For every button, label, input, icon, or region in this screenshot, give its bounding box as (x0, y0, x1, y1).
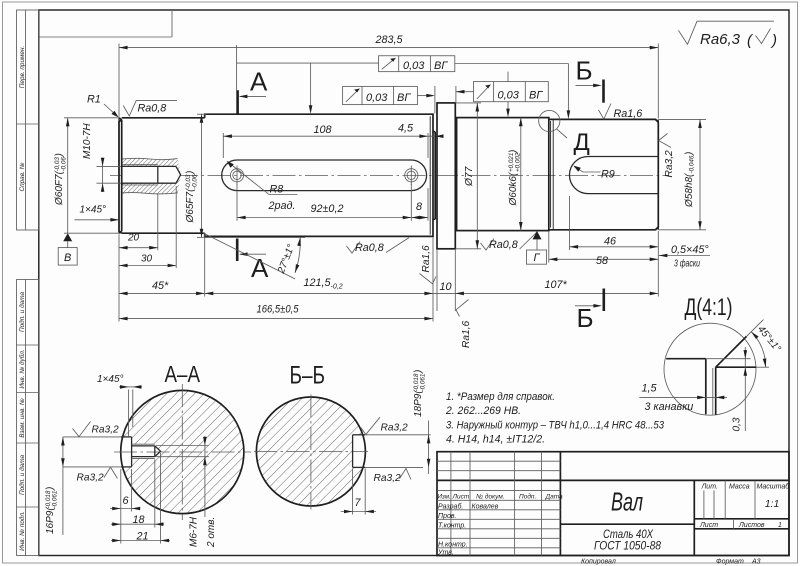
svg-text:Справ. №: Справ. № (19, 162, 26, 191)
svg-text:Сталь 40Х: Сталь 40Х (603, 529, 654, 541)
svg-text:А–А: А–А (165, 361, 201, 387)
svg-text:Ø60k6(: Ø60k6( (508, 171, 519, 206)
svg-text:2рад.: 2рад. (268, 200, 296, 212)
svg-text:107*: 107* (545, 279, 568, 291)
svg-text:Утв.: Утв. (437, 549, 454, 556)
svg-text:283,5: 283,5 (375, 34, 404, 46)
svg-text:): ) (684, 152, 695, 156)
svg-text:Ø60F7(: Ø60F7( (54, 169, 65, 206)
svg-text:ГОСТ 1050-88: ГОСТ 1050-88 (594, 540, 662, 552)
svg-text:20: 20 (127, 233, 140, 244)
svg-text:1: 1 (778, 522, 782, 529)
svg-text:+0,002: +0,002 (514, 152, 521, 172)
svg-text:Подп. и дата: Подп. и дата (18, 455, 26, 495)
svg-text:Перв. примен.: Перв. примен. (19, 46, 26, 88)
svg-text:30: 30 (141, 254, 153, 265)
svg-text:): ) (508, 150, 519, 154)
svg-text:Ra3,2: Ra3,2 (374, 473, 402, 484)
svg-text:В: В (64, 252, 71, 264)
svg-text:R9: R9 (601, 169, 615, 181)
svg-text:10: 10 (440, 281, 452, 293)
svg-text:0,3: 0,3 (732, 417, 743, 431)
svg-text:№ докум.: № докум. (476, 493, 505, 501)
svg-text:Взам. инв. №: Взам. инв. № (19, 398, 26, 438)
svg-text:-0,046: -0,046 (689, 155, 696, 173)
svg-text:): ) (413, 370, 424, 374)
svg-text:R8: R8 (270, 184, 284, 196)
svg-text:166,5±0,5: 166,5±0,5 (257, 304, 300, 316)
svg-text:Подп. и дата: Подп. и дата (18, 292, 26, 332)
svg-text:Д: Д (574, 129, 590, 156)
svg-text:Ra3,2: Ra3,2 (664, 150, 675, 178)
svg-text:Подп.: Подп. (519, 493, 536, 501)
svg-text:1,5: 1,5 (642, 383, 658, 395)
svg-text:1×45°: 1×45° (97, 374, 124, 385)
svg-text:Масса: Масса (729, 483, 750, 490)
svg-text:46: 46 (604, 235, 616, 247)
svg-text:-0,06: -0,06 (191, 174, 198, 189)
svg-text:Изм.: Изм. (438, 494, 451, 501)
svg-text:Ra1,6: Ra1,6 (461, 320, 472, 348)
svg-text:18Р9(: 18Р9( (413, 389, 424, 417)
svg-text:Ra1,6: Ra1,6 (614, 108, 643, 120)
svg-text:3 канавки: 3 канавки (645, 401, 694, 413)
svg-text:М6-7Н: М6-7Н (189, 516, 200, 547)
svg-text:0,03: 0,03 (403, 60, 425, 72)
svg-text:4. Н14, h14, ±IT12/2.: 4. Н14, h14, ±IT12/2. (446, 434, 545, 446)
svg-text:2. 262...269 НВ.: 2. 262...269 НВ. (445, 405, 521, 417)
svg-text:А: А (251, 253, 269, 283)
svg-text:Ø58h8(: Ø58h8( (684, 172, 695, 208)
svg-text:0,03: 0,03 (498, 89, 520, 101)
svg-text:Б: Б (577, 303, 594, 333)
svg-text:21: 21 (136, 530, 149, 542)
svg-text:2 отв.: 2 отв. (206, 517, 217, 548)
svg-text:Ra6,3: Ra6,3 (700, 31, 741, 48)
svg-text:ВГ: ВГ (529, 89, 543, 101)
svg-text:4,5: 4,5 (398, 123, 414, 135)
svg-text:Лист: Лист (699, 522, 718, 529)
svg-text:7: 7 (355, 497, 362, 509)
svg-text:1×45°: 1×45° (80, 205, 107, 216)
svg-text:Лист: Лист (452, 494, 470, 501)
svg-text:): ) (45, 487, 56, 491)
svg-text:Г: Г (534, 252, 541, 264)
svg-text:): ) (770, 32, 777, 49)
svg-text:А: А (250, 67, 268, 97)
svg-text:Ковалев: Ковалев (472, 503, 499, 510)
svg-text:R1: R1 (87, 94, 101, 106)
svg-text:Д(4:1): Д(4:1) (685, 294, 733, 321)
svg-text:58: 58 (596, 255, 608, 267)
svg-text:Лит.: Лит. (701, 483, 718, 490)
svg-text:1:1: 1:1 (765, 498, 780, 510)
svg-text:ВГ: ВГ (434, 60, 448, 72)
svg-text:Масштаб: Масштаб (757, 482, 791, 490)
svg-text:108: 108 (314, 124, 332, 136)
svg-text:Ra0,8: Ra0,8 (489, 239, 518, 251)
svg-text:0,5×45°: 0,5×45° (671, 244, 709, 256)
svg-text:Разраб.: Разраб. (438, 502, 463, 510)
svg-text:3 фаски: 3 фаски (674, 259, 700, 270)
svg-text:6: 6 (123, 495, 129, 507)
svg-text:Ø77: Ø77 (464, 166, 475, 187)
svg-text:Инв. № подл.: Инв. № подл. (18, 511, 26, 551)
svg-text:ВГ: ВГ (397, 92, 411, 104)
svg-text:-0,061: -0,061 (419, 374, 426, 392)
svg-text:Ra0,8: Ra0,8 (355, 242, 384, 254)
svg-text:-0,061: -0,061 (51, 491, 58, 509)
svg-text:Б–Б: Б–Б (290, 362, 326, 390)
svg-text:Ø65F7(: Ø65F7( (185, 187, 196, 224)
svg-text:45*: 45* (152, 280, 169, 292)
svg-text:Формат: Формат (716, 559, 744, 566)
svg-text:М10-7Н: М10-7Н (82, 123, 93, 159)
svg-text:Ra3,2: Ra3,2 (77, 473, 105, 484)
svg-text:Вал: Вал (611, 487, 643, 517)
svg-text:1. *Размер для справок.: 1. *Размер для справок. (446, 391, 555, 403)
svg-text:Инв. № дубл.: Инв. № дубл. (18, 349, 26, 388)
svg-text:8: 8 (416, 201, 422, 213)
svg-text:Дата: Дата (545, 494, 564, 501)
svg-text:Листов: Листов (738, 522, 765, 529)
svg-text:): ) (185, 171, 196, 175)
svg-text:-0,06: -0,06 (60, 157, 67, 172)
svg-text:0,03: 0,03 (366, 92, 388, 104)
svg-text:Копировал: Копировал (581, 559, 616, 566)
svg-text:Ra3,2: Ra3,2 (92, 425, 120, 436)
svg-text:92±0,2: 92±0,2 (311, 203, 344, 215)
svg-text:): ) (54, 153, 65, 157)
svg-text:Ra0,8: Ra0,8 (138, 103, 167, 115)
svg-text:Пров.: Пров. (438, 513, 457, 520)
svg-text:Т.контр.: Т.контр. (438, 522, 466, 529)
svg-text:Ra1,6: Ra1,6 (421, 245, 432, 273)
svg-text:Ra3,2: Ra3,2 (381, 423, 409, 434)
svg-text:А3: А3 (751, 559, 761, 566)
svg-text:Н.контр.: Н.контр. (438, 541, 468, 548)
svg-text:18: 18 (133, 514, 145, 526)
svg-text:Б: Б (576, 56, 593, 86)
svg-text:3. Наружный контур – ТВЧ h1,0.: 3. Наружный контур – ТВЧ h1,0...1,4 HRC … (446, 420, 664, 432)
svg-text:16Р9(: 16Р9( (45, 506, 56, 534)
